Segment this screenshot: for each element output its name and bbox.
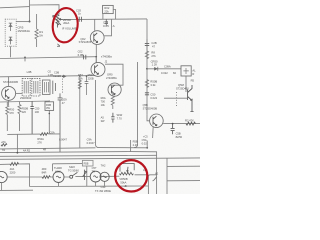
capacitor C509 [58,93,63,152]
svg-text:2200: 2200 [10,170,16,174]
wire into Q506 base [164,97,188,99]
bottom return wire [30,185,149,188]
svg-text:VR50B: VR50B [119,177,127,181]
junction bus/box bottom [146,147,148,149]
svg-text:ST2SD400B: ST2SD400B [143,106,158,110]
wire J1 top to node [16,21,29,23]
potentiometer VR503 element [119,172,133,175]
resistor R506 box [45,102,54,111]
diode CR1 inside J1 [9,23,13,31]
svg-text:0.022: 0.022 [150,96,157,100]
coil bars B [34,81,38,93]
wire y=166.5 right [167,165,200,167]
diode CR502 inline on rail [63,75,66,78]
svg-text:R202B: R202B [53,74,61,78]
svg-text:0.022: 0.022 [161,71,168,75]
svg-text:R50B: R50B [22,107,29,111]
long vertical x=80 [79,76,81,148]
transistor Q504 circle [108,83,121,96]
svg-text:Q02: Q02 [80,37,86,41]
rail y=148 [0,148,96,149]
resistor R2 inline [186,122,196,125]
svg-text:YR: YR [2,148,6,152]
svg-text:700: 700 [101,99,106,103]
svg-text:5A: 5A [39,33,43,37]
relay box K1 [181,66,191,76]
svg-text:220B: 220B [88,76,94,80]
wire R502 right leg [113,10,115,20]
svg-text:0.02: 0.02 [142,141,148,145]
capacitor C510 [111,113,114,123]
resistor R50A inline [40,133,48,136]
svg-text:20kA: 20kA [63,21,69,25]
lamp PL1 [0,171,7,182]
wire from node to volume pot [30,5,60,15]
svg-text:+B: +B [123,184,127,188]
main signal wire y=19 [63,18,147,21]
svg-text:4A R2: 4A R2 [23,148,31,152]
ground stub below VR502 [57,44,60,47]
svg-text:84R: 84R [42,170,47,174]
svg-text:GR0: GR0 [107,73,113,77]
resistor R507 [111,93,114,109]
junction dot at x=29.5 [29,21,31,23]
diode CR50 [154,67,158,71]
VR503 wiper [127,167,129,172]
wire y=180.6 right [167,180,200,182]
capacitor C506 [30,101,33,134]
lamp PL3 [90,171,101,182]
dashed link [176,92,178,107]
svg-text:Q5M: Q5M [178,83,185,87]
bypass wire over lamps [53,164,87,187]
Q501 internals [5,89,9,98]
svg-text:R0B: R0B [46,103,51,107]
svg-text:1.0B: 1.0B [48,73,54,77]
junction on IF rail [24,57,26,59]
wiper arrow VR502 [59,18,62,20]
svg-text:R5: R5 [191,78,195,82]
rail y=152.5 with elbow [0,152,157,194]
svg-text:C40: C40 [101,185,106,189]
svg-text:7.70: 7.70 [117,116,123,120]
resistor R504 [6,102,9,132]
svg-text:27k: 27k [151,54,156,58]
Q502 internals [94,33,98,43]
svg-text:50kA: 50kA [120,180,126,184]
svg-text:10k: 10k [101,103,106,107]
svg-text:R5?: R5? [78,73,83,77]
red circle highlight 1 [51,7,80,44]
diode CR2 inside J1 [9,37,13,45]
svg-text:1.2K: 1.2K [152,63,158,67]
svg-text:R: R [192,72,194,76]
wire VR503 to right elbow [135,175,157,194]
junction dot Q503 top [95,56,97,58]
svg-text:ST2SD400B: ST2SD400B [3,80,18,84]
svg-text:6.0B: 6.0B [78,53,84,57]
detector board box bottom [99,147,147,149]
rail y=158.8 full [0,158,200,159]
svg-text:C0B: C0B [54,70,59,74]
wire K1 to Q506 [185,76,187,92]
potentiometer VR503 bracket [120,164,134,172]
emitter rail y=101.5 [0,101,49,102]
capacitor C502 bars on rail [84,55,86,60]
resistor R27 on bus [145,51,148,59]
red circle highlight 2 [115,160,147,191]
detector board box left edge [96,80,100,148]
capacitor C503 series bars [79,17,81,22]
wire Q505 collector right [163,123,200,125]
wire vertical drop at x=29.5 [29,0,31,22]
wire Q501 emitter [8,100,10,105]
svg-text:AL: AL [192,68,196,72]
lamp PL2 [53,172,64,183]
wire R502 left leg [102,14,104,19]
svg-text:Q5B: Q5B [143,103,148,107]
connector J1 dashed body [5,19,16,46]
detector board box right edge [134,62,138,148]
svg-text:22k: 22k [104,9,109,13]
potentiometer VR502 [56,14,59,27]
svg-text:3W: 3W [46,106,50,110]
capacitor C512 [171,124,175,135]
bottom rail far left [0,189,33,191]
rail y=156 [0,155,157,156]
coil bars A [24,81,28,93]
wire Q502 emitter to Q503 [95,45,97,63]
trimmer stubs right [53,81,56,94]
resistor R521 inline [10,162,19,165]
check tick [153,177,157,181]
resistor R522 inline [42,176,50,179]
svg-text:4R0: 4R0 [42,167,47,171]
svg-text:0.05: 0.05 [103,24,109,28]
resistor R50B on bus [145,80,148,88]
left resistor R520 zigzag [1,144,7,146]
svg-text:W/W: W/W [117,113,123,117]
svg-text:100: 100 [35,110,40,114]
capacitor C504 stub [105,19,108,26]
power bus vertical x=147 [146,19,148,114]
Q505 internals [153,116,157,126]
svg-text:47: 47 [152,45,155,49]
resistor R1 [35,14,38,47]
filter box C [42,80,50,94]
coil L503 dashed box B [32,78,40,96]
transistor Q503 circle [91,62,105,76]
small box above thermistor [82,160,93,166]
coil L502 dashed box A [22,78,30,96]
svg-text:40W: 40W [55,169,61,173]
svg-text:2SD840Z: 2SD840Z [20,96,32,100]
svg-text:27K: 27K [37,141,42,145]
wire Q503 collector right [105,64,123,85]
wire Q501 top [8,76,10,86]
transistor Q505 circle [150,114,164,128]
transistor Q501 circle [2,86,16,100]
svg-text:R8: R8 [151,51,155,55]
svg-text:82: 82 [173,71,176,75]
svg-text:R50A: R50A [37,137,44,141]
svg-text:sT400Ba: sT400Ba [101,55,112,59]
svg-text:C09A: C09A [164,65,171,69]
svg-text:C9A: C9A [87,138,92,142]
rail y=76 [0,76,96,77]
svg-text:R02: R02 [104,6,109,10]
dial lamp feed wire [0,164,30,187]
junction on collector wire [172,123,174,125]
svg-text:sT400BA: sT400BA [106,76,117,80]
svg-text:A5: A5 [101,116,105,120]
svg-text:10A: 10A [78,76,83,80]
capacitor C50 bars on bus [145,93,149,95]
switch S1 [70,175,73,178]
Q503 internals [95,65,99,75]
wire J1 bottom stub [10,46,12,57]
vertical x=167 [166,158,168,194]
svg-text:C02: C02 [78,49,83,53]
capacitor C508 at x=86.5 [85,76,89,95]
svg-text:1N5064A: 1N5064A [17,29,30,33]
svg-text:3.3k: 3.3k [150,83,156,87]
svg-text:R5B: R5B [133,140,138,144]
resistor R509 on x=80 drop [78,80,81,89]
thermistor TH1 [83,170,87,180]
svg-text:C09: C09 [62,97,67,101]
stub x=17.4 [16,134,18,153]
svg-text:TG 50/60: TG 50/60 [68,168,79,172]
svg-text:TX 4W WIDE: TX 4W WIDE [95,189,111,193]
svg-text:4R: 4R [43,148,46,151]
svg-text:3W: 3W [101,119,105,123]
lamp row wire [7,175,119,178]
svg-text:R50B: R50B [150,80,157,84]
dashed drop with diode at x=62.5 [62,79,64,94]
svg-text:ST2SA505: ST2SA505 [79,40,92,44]
svg-text:C5?: C5? [92,166,97,170]
svg-text:43A: 43A [10,167,15,171]
Q505 emitter leg [152,126,155,138]
svg-text:R5B: R5B [84,163,89,166]
svg-text:A2: A2 [155,171,159,175]
svg-text:C5B: C5B [176,132,181,136]
wire AGC y=69 [147,68,181,70]
svg-text:C50: C50 [150,92,155,96]
diagonal adjust arrow VR502 [53,15,61,25]
junction node on bus [146,68,148,70]
svg-text:IF VOLUME: IF VOLUME [62,27,77,31]
svg-text:220: 220 [22,110,27,114]
resistor R505 [18,101,21,131]
svg-text:C0: C0 [48,70,52,74]
svg-text:470: 470 [9,111,14,115]
wire Q502 collector top [94,19,96,31]
transistor Q502 circle [90,31,104,45]
wire Q503 collector top [95,57,97,63]
svg-text:R50: R50 [9,107,14,111]
svg-text:C0A: C0A [50,130,55,134]
capacitor C2 bars on bus [145,43,149,45]
svg-text:+PA: +PA [1,140,6,144]
svg-text:TR: TR [92,169,96,173]
svg-text:L0B: L0B [27,70,32,74]
svg-text:SR/2: SR/2 [69,165,75,169]
wire bus into Q505 [147,114,150,120]
svg-text:A: A [113,24,115,28]
resistor R502 box [103,5,114,13]
svg-text:C50: C50 [35,107,40,111]
wire top-left horizontal [0,7,30,8]
svg-text:C5A: C5A [142,138,147,142]
wire Q501 right [16,92,23,94]
ground bus wire y=134 [7,133,60,136]
wire Q502 base right to x=111.5 [104,19,111,36]
lamp PL4 [100,172,109,181]
svg-text:C2B: C2B [151,41,156,45]
svg-text:ST2SD400: ST2SD400 [176,87,189,91]
transistor Q506 bare symbol [188,85,194,112]
svg-text:R2 47K: R2 47K [185,119,194,123]
svg-text:82/50: 82/50 [176,135,183,139]
svg-text:R50: R50 [88,73,93,77]
IF rail y=57 [0,57,96,59]
svg-text:2.2K: 2.2K [133,143,139,147]
lamp legs to return wire [2,181,105,190]
svg-text:0.0047: 0.0047 [87,141,95,145]
svg-text:0.0047: 0.0047 [59,138,67,142]
svg-text:TH2: TH2 [101,163,106,167]
svg-text:R0A: R0A [101,96,106,100]
svg-text:TH400: TH400 [54,166,62,170]
stub x=130.6 [130,140,132,152]
Q504 internals [111,85,115,94]
